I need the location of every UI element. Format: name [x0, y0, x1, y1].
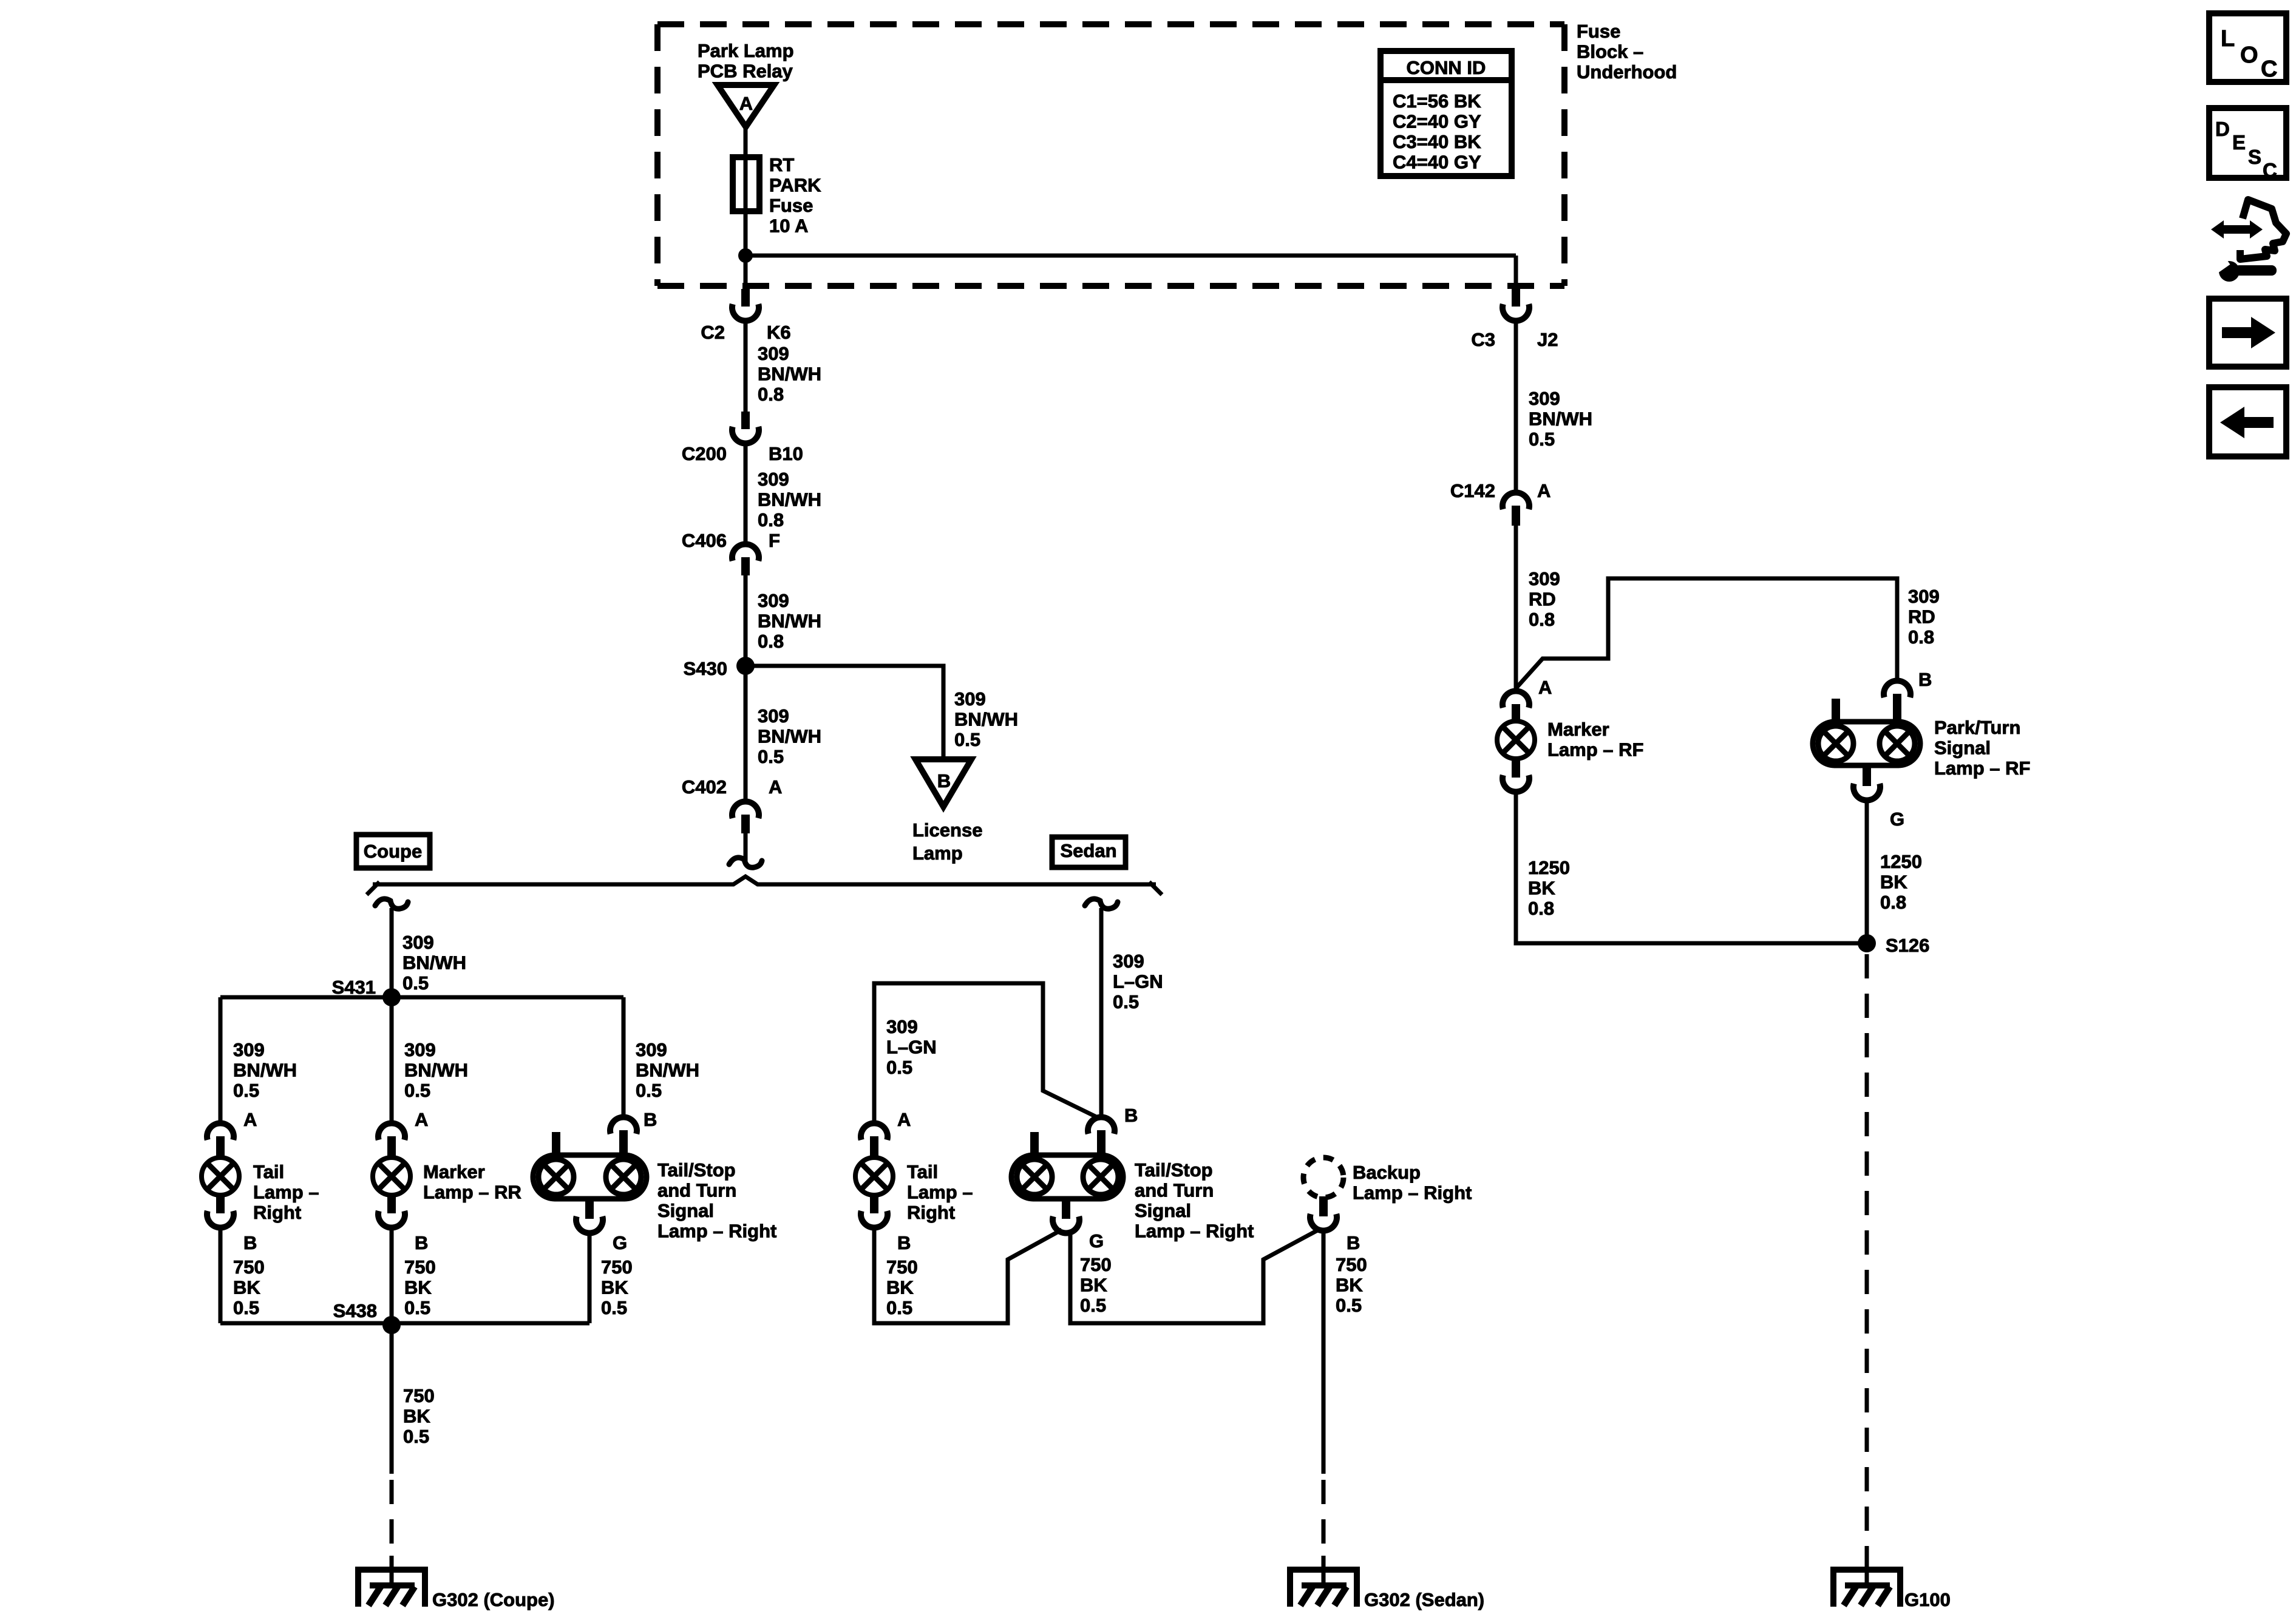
svg-text:0.5: 0.5 — [886, 1057, 912, 1078]
svg-text:309: 309 — [886, 1016, 918, 1037]
wire label 750 BK 0.5 — [1336, 1254, 1367, 1316]
svg-text:Coupe: Coupe — [364, 841, 422, 862]
option squiggle at C402 — [729, 858, 762, 867]
sedan branch option squiggle — [1085, 899, 1118, 909]
svg-text:Lamp –: Lamp – — [253, 1182, 319, 1203]
wire: park/turn G to S126 — [1865, 801, 1869, 943]
svg-text:BN/WH: BN/WH — [758, 726, 821, 747]
svg-text:750: 750 — [404, 1256, 436, 1278]
svg-text:0.8: 0.8 — [1529, 609, 1555, 630]
Fuse Block - Underhood dashed boundary — [657, 24, 1564, 286]
svg-text:309: 309 — [1529, 388, 1560, 409]
svg-text:Marker: Marker — [423, 1161, 485, 1182]
svg-text:Park Lamp: Park Lamp — [698, 40, 794, 61]
svg-text:750: 750 — [886, 1256, 918, 1278]
label: License Lamp — [912, 819, 982, 864]
svg-text:BN/WH: BN/WH — [758, 364, 821, 385]
label: C3 / J2 — [1471, 329, 1558, 350]
svg-text:Fuse: Fuse — [769, 195, 813, 216]
svg-text:BK: BK — [886, 1277, 914, 1298]
marker lamp - RR — [373, 1158, 410, 1195]
wire: C2 to C200 — [744, 321, 748, 413]
wire label 750 BK 0.5 — [233, 1256, 265, 1318]
wire: tail lamp B down — [219, 1228, 223, 1323]
wire: relay to fuse — [744, 124, 748, 159]
park/turn RF terminal G — [1853, 765, 1880, 801]
svg-text:A: A — [769, 776, 782, 798]
svg-text:G100: G100 — [1904, 1589, 1951, 1610]
svg-text:C: C — [2261, 56, 2277, 82]
icon: back arrow box — [2209, 387, 2286, 456]
svg-text:750: 750 — [403, 1385, 435, 1406]
svg-text:S126: S126 — [1886, 935, 1929, 956]
svg-text:Lamp – Right: Lamp – Right — [657, 1221, 776, 1242]
backup lamp - right (dashed) — [1303, 1158, 1343, 1198]
svg-text:Tail: Tail — [907, 1161, 938, 1182]
svg-text:309: 309 — [404, 1039, 436, 1060]
svg-text:S438: S438 — [333, 1300, 377, 1321]
svg-text:Lamp: Lamp — [912, 842, 963, 864]
label: Tail/Stop and Turn Signal Lamp - Right — [657, 1159, 776, 1242]
svg-text:0.8: 0.8 — [1528, 898, 1554, 919]
wire: drop to marker lamp RR — [390, 997, 394, 1120]
wire: drop to C3 — [1514, 256, 1518, 290]
wire: marker RF to S126 — [1516, 792, 1863, 943]
svg-text:309: 309 — [233, 1039, 265, 1060]
svg-text:C2: C2 — [701, 322, 725, 343]
svg-text:C402: C402 — [682, 776, 727, 798]
backup lamp terminal B — [1310, 1196, 1337, 1231]
wire label 309 L-GN 0.5 (sedan) — [1113, 951, 1163, 1012]
wire: drop to tail lamp right — [219, 997, 223, 1120]
marker lamp - RF — [1497, 721, 1535, 759]
svg-text:309: 309 — [758, 469, 789, 490]
svg-text:Fuse: Fuse — [1577, 21, 1620, 42]
wire label 309 BN/WH 0.5 — [1529, 388, 1592, 450]
svg-text:BK: BK — [601, 1277, 628, 1298]
svg-text:K6: K6 — [767, 322, 791, 343]
wire label 309 RD 0.8 — [1529, 568, 1560, 630]
marker lamp RR terminal B — [378, 1194, 405, 1228]
tail/stop and turn signal lamp - right (sedan) terminal B — [1088, 1117, 1115, 1155]
svg-text:Sedan: Sedan — [1060, 840, 1116, 861]
ground G302 (Coupe) — [358, 1570, 425, 1607]
relay triangle A (Park Lamp PCB Relay output) — [718, 85, 774, 127]
svg-text:0.5: 0.5 — [1336, 1295, 1362, 1316]
wire: C402 to option split — [744, 833, 748, 862]
sedan tail lamp terminal B — [861, 1194, 888, 1228]
wire: sedan branch down to tail/stop B — [1099, 908, 1104, 1115]
svg-text:0.5: 0.5 — [233, 1297, 259, 1318]
wire: drop to tail/stop lamp B — [622, 997, 626, 1115]
svg-text:L–GN: L–GN — [886, 1037, 937, 1058]
svg-text:RD: RD — [1908, 606, 1935, 628]
svg-text:BN/WH: BN/WH — [636, 1060, 699, 1081]
svg-text:S431: S431 — [332, 977, 376, 998]
svg-text:S430: S430 — [684, 658, 727, 679]
label: C406 / F — [682, 530, 780, 551]
tail/stop (coupe) terminal G — [576, 1199, 603, 1233]
park/turn signal lamp - RF body — [1813, 699, 1920, 765]
svg-text:309: 309 — [758, 590, 789, 611]
svg-text:BK: BK — [404, 1277, 432, 1298]
wire label 309 BN/WH 0.5 — [233, 1039, 297, 1101]
marker lamp RF bottom terminal — [1503, 758, 1529, 792]
svg-text:Lamp – Right: Lamp – Right — [1353, 1182, 1472, 1204]
svg-text:BK: BK — [1080, 1275, 1107, 1296]
CONN ID table — [1381, 51, 1512, 176]
label: Tail Lamp - Right (coupe) — [253, 1161, 319, 1223]
wire label 750 BK 0.5 — [601, 1256, 633, 1318]
wire (dashed) S126 to G100 — [1865, 954, 1869, 1560]
svg-text:Marker: Marker — [1547, 719, 1609, 740]
svg-text:RD: RD — [1529, 589, 1556, 610]
park/turn signal lamp RF terminal B — [1884, 680, 1911, 722]
svg-text:C142: C142 — [1450, 480, 1495, 501]
svg-text:B: B — [243, 1232, 257, 1253]
svg-text:C200: C200 — [682, 443, 727, 464]
svg-text:C3: C3 — [1471, 329, 1495, 350]
wire label 750 BK 0.5 — [886, 1256, 918, 1318]
splice node S431 — [382, 988, 401, 1006]
svg-text:0.5: 0.5 — [403, 1426, 429, 1447]
svg-text:B10: B10 — [769, 443, 803, 464]
junction node in fuse block — [738, 248, 753, 263]
connector C2 pin K6 — [732, 289, 759, 321]
svg-text:BK: BK — [233, 1277, 260, 1298]
marker lamp RR terminal A — [378, 1123, 405, 1158]
connector C406 pin F — [732, 544, 759, 575]
svg-text:309: 309 — [758, 343, 789, 364]
svg-text:C4=40 GY: C4=40 GY — [1393, 152, 1481, 173]
svg-text:Tail: Tail — [253, 1161, 284, 1182]
wire: C142 down to marker RF — [1514, 526, 1518, 691]
svg-text:License: License — [912, 819, 982, 841]
svg-text:0.8: 0.8 — [1908, 626, 1934, 648]
wire: C200 to C406 — [744, 444, 748, 542]
svg-text:C1=56 BK: C1=56 BK — [1393, 90, 1481, 112]
icon: DESC box — [2209, 108, 2286, 181]
label: C402 / A — [682, 776, 783, 798]
svg-text:B: B — [1347, 1232, 1360, 1253]
svg-text:309: 309 — [1113, 951, 1144, 972]
svg-text:750: 750 — [233, 1256, 265, 1278]
wire: backup B down — [1322, 1231, 1326, 1474]
svg-text:B: B — [415, 1232, 428, 1253]
icon: harness repair (arrow, outline, wrench) — [2211, 200, 2286, 282]
svg-text:0.5: 0.5 — [1529, 429, 1555, 450]
svg-text:BN/WH: BN/WH — [1529, 408, 1592, 430]
svg-text:Lamp – RF: Lamp – RF — [1934, 758, 2030, 779]
wire label 750 BK 0.5 — [1080, 1254, 1112, 1316]
svg-text:0.5: 0.5 — [886, 1297, 912, 1318]
wire: branch to sedan tail lamp — [874, 983, 1100, 1120]
combiner brace Coupe/Sedan — [367, 876, 1162, 895]
svg-text:750: 750 — [1336, 1254, 1367, 1275]
label box: Sedan — [1052, 837, 1126, 867]
wire label 750 BK 0.5 — [403, 1385, 435, 1447]
wire: junction across fuse block — [746, 254, 1516, 258]
connector C142 pin A — [1503, 492, 1529, 526]
wire: S431 horizontal bus — [220, 995, 623, 1000]
svg-text:J2: J2 — [1537, 329, 1558, 350]
connector C3 pin J2 — [1503, 289, 1529, 321]
svg-text:309: 309 — [758, 705, 789, 727]
svg-text:S: S — [2248, 146, 2261, 168]
svg-text:Right: Right — [253, 1202, 301, 1223]
svg-text:0.8: 0.8 — [758, 384, 784, 405]
wire: coupe branch down to S431 — [390, 908, 394, 997]
svg-text:0.8: 0.8 — [758, 509, 784, 531]
svg-text:RT: RT — [769, 154, 794, 175]
wire: S430 branch to license lamp — [746, 666, 943, 759]
svg-text:Lamp –: Lamp – — [907, 1182, 973, 1203]
wire label 309 RD 0.8 (park/turn) — [1908, 586, 1940, 648]
label: C200 / B10 — [682, 443, 803, 464]
svg-text:0.8: 0.8 — [758, 631, 784, 652]
svg-text:C2=40 GY: C2=40 GY — [1393, 111, 1481, 132]
wire label 309 L-GN 0.5 — [886, 1016, 937, 1078]
svg-text:1250: 1250 — [1880, 851, 1922, 872]
wire label 750 BK 0.5 — [404, 1256, 436, 1318]
svg-text:0.5: 0.5 — [404, 1080, 430, 1101]
svg-text:G302 (Sedan): G302 (Sedan) — [1364, 1589, 1484, 1610]
wire label 309 BN/WH 0.8 — [758, 343, 821, 405]
svg-text:A: A — [1538, 677, 1552, 698]
splice node S430 — [736, 657, 755, 675]
wire label 309 BN/WH 0.5 (license branch) — [954, 688, 1018, 750]
svg-text:C: C — [2263, 159, 2277, 181]
svg-text:and Turn: and Turn — [1135, 1180, 1214, 1201]
label: Marker Lamp - RF — [1547, 719, 1643, 761]
svg-text:BN/WH: BN/WH — [404, 1060, 468, 1081]
wire: S438 ground bus — [220, 1321, 589, 1326]
splice node S438 — [382, 1316, 401, 1334]
svg-text:G: G — [613, 1232, 627, 1253]
svg-text:309: 309 — [1529, 568, 1560, 589]
svg-text:B: B — [937, 770, 951, 792]
wire label 309 BN/WH 0.5 — [404, 1039, 468, 1101]
wire: sedan G to backup join — [1070, 1230, 1319, 1323]
svg-text:B: B — [1124, 1105, 1138, 1126]
wire label 1250 BK 0.8 — [1528, 857, 1570, 919]
wire: C406 to S430 to C402 — [744, 575, 748, 799]
svg-text:750: 750 — [1080, 1254, 1112, 1275]
svg-text:309: 309 — [636, 1039, 667, 1060]
svg-text:1250: 1250 — [1528, 857, 1570, 878]
label: Marker Lamp - RR — [423, 1161, 521, 1203]
wire (dashed) to G302 sedan — [1322, 1480, 1326, 1560]
svg-text:A: A — [1537, 480, 1550, 501]
label: Tail/Stop and Turn Signal Lamp - Right (sedan) — [1135, 1159, 1254, 1242]
wire: marker RR B down to S438 — [390, 1228, 394, 1326]
svg-text:Park/Turn: Park/Turn — [1934, 717, 2020, 738]
wire: coupe G down — [588, 1233, 592, 1323]
wire: branch to park/turn lamp RF — [1516, 578, 1897, 688]
tail lamp right terminal B — [207, 1194, 234, 1228]
fuse RT PARK 10 A — [733, 157, 759, 211]
wire label 1250 BK 0.8 — [1880, 851, 1922, 913]
connector C200 pin B10 — [732, 412, 759, 444]
svg-text:and Turn: and Turn — [657, 1180, 736, 1201]
svg-text:L–GN: L–GN — [1113, 971, 1163, 992]
svg-text:0.5: 0.5 — [636, 1080, 662, 1101]
svg-text:BN/WH: BN/WH — [233, 1060, 297, 1081]
svg-text:O: O — [2240, 42, 2258, 68]
svg-text:B: B — [1918, 669, 1932, 690]
svg-text:309: 309 — [402, 932, 434, 953]
svg-text:Right: Right — [907, 1202, 955, 1223]
label: C2 / K6 — [701, 322, 790, 343]
label: Park Lamp PCB Relay — [698, 40, 794, 82]
tail/stop turn lamp (sedan) body — [1011, 1132, 1123, 1199]
label: C142 / A — [1450, 480, 1551, 501]
connector C402 pin A — [732, 801, 759, 833]
icon: forward arrow box — [2209, 299, 2286, 367]
svg-text:CONN ID: CONN ID — [1407, 57, 1486, 78]
svg-text:BN/WH: BN/WH — [758, 611, 821, 632]
svg-text:Tail/Stop: Tail/Stop — [657, 1159, 736, 1181]
svg-text:G: G — [1890, 808, 1904, 830]
svg-text:0.5: 0.5 — [402, 972, 429, 994]
tail/stop and turn signal lamp - right (coupe) terminal B — [610, 1117, 637, 1155]
wire label 309 BN/WH 0.5 — [758, 705, 821, 767]
svg-text:0.5: 0.5 — [1080, 1295, 1106, 1316]
wire: C3 to C142 — [1514, 321, 1518, 490]
svg-text:C406: C406 — [682, 530, 727, 551]
marker lamp RF terminal A — [1503, 691, 1529, 722]
svg-text:Backup: Backup — [1353, 1162, 1421, 1183]
svg-text:BK: BK — [1336, 1275, 1363, 1296]
svg-text:G302 (Coupe): G302 (Coupe) — [432, 1589, 555, 1610]
ground G302 (Sedan) — [1290, 1570, 1357, 1607]
svg-text:0.8: 0.8 — [1880, 892, 1906, 913]
wire: S438 down — [390, 1325, 394, 1474]
svg-text:A: A — [897, 1109, 911, 1130]
svg-text:PARK: PARK — [769, 175, 821, 196]
svg-text:BK: BK — [403, 1406, 430, 1427]
svg-text:BN/WH: BN/WH — [954, 709, 1018, 730]
tail lamp - right (coupe) — [202, 1158, 239, 1195]
svg-text:309: 309 — [1908, 586, 1940, 607]
label box: Coupe — [356, 835, 430, 868]
svg-text:Lamp – RF: Lamp – RF — [1547, 739, 1643, 761]
label: Backup Lamp - Right — [1353, 1162, 1472, 1204]
svg-text:0.5: 0.5 — [233, 1080, 259, 1101]
svg-text:E: E — [2232, 131, 2246, 154]
svg-text:0.5: 0.5 — [758, 746, 784, 767]
svg-text:Lamp – Right: Lamp – Right — [1135, 1221, 1254, 1242]
svg-text:BK: BK — [1880, 872, 1907, 893]
svg-text:BK: BK — [1528, 878, 1555, 899]
svg-text:B: B — [644, 1109, 657, 1130]
svg-text:Signal: Signal — [657, 1200, 714, 1221]
svg-text:Signal: Signal — [1135, 1200, 1191, 1221]
svg-text:0.5: 0.5 — [1113, 991, 1139, 1012]
coupe branch option squiggle — [375, 899, 408, 909]
svg-text:PCB Relay: PCB Relay — [698, 61, 793, 82]
svg-text:C3=40 BK: C3=40 BK — [1393, 131, 1481, 152]
tail lamp - right (sedan) — [855, 1158, 893, 1195]
wire label 309 BN/WH 0.8 — [758, 590, 821, 652]
splice node S126 — [1858, 934, 1876, 952]
svg-text:10 A: 10 A — [769, 215, 808, 237]
svg-text:750: 750 — [601, 1256, 633, 1278]
svg-text:A: A — [243, 1109, 257, 1130]
svg-text:Underhood: Underhood — [1577, 61, 1677, 83]
svg-text:A: A — [739, 93, 753, 114]
wire: fuse down to junction and C2 — [744, 211, 748, 290]
icon: LOC box — [2209, 13, 2286, 82]
svg-text:Lamp – RR: Lamp – RR — [423, 1182, 521, 1203]
wire: sedan tail lamp B to G join — [874, 1228, 1062, 1323]
ground G100 — [1833, 1570, 1900, 1607]
svg-text:D: D — [2215, 118, 2230, 140]
tail/stop turn lamp (coupe) body — [533, 1132, 647, 1199]
svg-text:309: 309 — [954, 688, 986, 710]
svg-text:Tail/Stop: Tail/Stop — [1135, 1159, 1213, 1181]
license lamp triangle B — [915, 759, 971, 807]
svg-text:L: L — [2221, 26, 2235, 52]
svg-text:A: A — [415, 1109, 428, 1130]
svg-text:G: G — [1089, 1230, 1104, 1252]
svg-text:Signal: Signal — [1934, 737, 1991, 759]
svg-text:B: B — [897, 1232, 911, 1253]
svg-text:F: F — [769, 530, 780, 551]
label: Park/Turn Signal Lamp - RF — [1934, 717, 2030, 779]
sedan tail lamp terminal A — [861, 1123, 888, 1158]
label: Tail Lamp - Right (sedan) — [907, 1161, 973, 1223]
wire label 309 BN/WH 0.5 — [636, 1039, 699, 1101]
svg-text:0.5: 0.5 — [404, 1297, 430, 1318]
tail lamp right (coupe) terminal A — [207, 1123, 234, 1158]
svg-text:BN/WH: BN/WH — [402, 952, 466, 974]
svg-text:BN/WH: BN/WH — [758, 489, 821, 510]
svg-text:Block –: Block – — [1577, 41, 1643, 63]
svg-text:0.5: 0.5 — [601, 1297, 627, 1318]
tail/stop (sedan) terminal G — [1053, 1199, 1079, 1233]
label: RT PARK Fuse 10 A — [769, 154, 821, 237]
svg-text:0.5: 0.5 — [954, 729, 980, 750]
wire (dashed) to G302 coupe — [390, 1480, 394, 1560]
wire label 309 BN/WH 0.8 — [758, 469, 821, 531]
wire label 309 BN/WH 0.5 (coupe) — [402, 932, 466, 994]
label: Fuse Block - Underhood — [1577, 21, 1677, 83]
